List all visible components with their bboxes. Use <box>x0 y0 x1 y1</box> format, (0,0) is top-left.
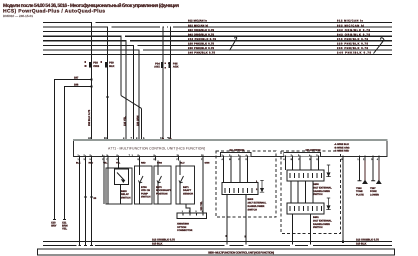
svg-text:A771 - MULTIFUNCTION CONTROL: A771 - MULTIFUNCTION CONTROL UNIT [HCS F… <box>108 146 205 150</box>
wire drop x141.5 to unit <box>141 108 143 140</box>
svg-text:942 ORG/BLK 0.75: 942 ORG/BLK 0.75 <box>337 33 371 36</box>
wire continuation slash left <box>230 37 237 51</box>
bus line 6 <box>43 44 392 46</box>
hd connector strip <box>284 152 321 156</box>
svg-text:DN5910 — 240-15-01: DN5910 — 240-15-01 <box>3 14 33 18</box>
wire label cluster right <box>337 20 372 55</box>
connector wedge P29 <box>105 62 107 68</box>
svg-text:298: 298 <box>74 84 79 87</box>
svg-text:SWITCH: SWITCH <box>313 193 323 196</box>
svg-text:230 PNK/BLK 0.75: 230 PNK/BLK 0.75 <box>337 47 369 50</box>
A771 multifunction control unit box <box>74 140 388 157</box>
end tick X10 <box>53 219 56 221</box>
svg-text:BLU: BLU <box>180 161 185 164</box>
relay enclosure B820 <box>106 168 132 204</box>
end tick X11 <box>63 219 66 221</box>
svg-text:SENSOR: SENSOR <box>183 192 193 195</box>
pin dot v8 <box>170 138 172 140</box>
switch blade B700 <box>139 176 144 183</box>
svg-text:PLATE: PLATE <box>356 193 364 196</box>
inner wires b800h to b801 <box>291 181 313 203</box>
pin labels above unit top <box>88 137 171 140</box>
svg-text:POSITION: POSITION <box>156 192 168 195</box>
pin number row inside unit <box>78 154 205 157</box>
junction dot trio 2 <box>84 196 86 198</box>
wire drop x107.4 from line2 to unit <box>106 27 108 140</box>
bus line 1 <box>43 22 392 24</box>
B800 down wires <box>226 195 228 246</box>
diagonal jog wire <box>121 96 142 109</box>
svg-text:LOWER: LOWER <box>370 193 379 196</box>
svg-text:220 PNK/BLK 0.75: 220 PNK/BLK 0.75 <box>188 43 215 46</box>
X868 option connector <box>177 213 207 219</box>
wire drop x139 from line7 to unit <box>138 49 140 140</box>
svg-text:310 BLK: 310 BLK <box>356 243 367 246</box>
X868 pin digits <box>182 210 204 213</box>
right single wire <box>342 155 344 242</box>
left trio wire 2 <box>85 161 87 246</box>
svg-text:210 PNK/BLK 0.75: 210 PNK/BLK 0.75 <box>337 38 369 41</box>
svg-text:GRY: GRY <box>51 224 57 227</box>
svg-text:SWITCH: SWITCH <box>141 196 151 199</box>
svg-text:312 ORG/BLK 0.75: 312 ORG/BLK 0.75 <box>152 238 175 241</box>
enclosure feed wires <box>107 161 109 169</box>
branch wire to X11 <box>65 87 92 220</box>
HD OPTION dashed box <box>281 151 341 234</box>
junction dot trio 3 <box>90 196 92 198</box>
B801 connector box <box>287 203 324 214</box>
svg-text:ORG: ORG <box>93 65 99 68</box>
svg-text:220 GRN: 220 GRN <box>136 115 139 126</box>
pin number row below unit <box>78 158 205 161</box>
unit bottom pin ticks <box>80 155 204 160</box>
svg-text:230 PNK/BLK 0.75: 230 PNK/BLK 0.75 <box>188 47 215 50</box>
bus line 8 <box>43 53 392 55</box>
relay box <box>115 169 129 185</box>
wire continuation slash right <box>374 38 385 54</box>
svg-text:BLK: BLK <box>76 161 81 164</box>
wire drop x126 from line5 to unit <box>125 40 127 140</box>
svg-text:310 BLK: 310 BLK <box>152 243 163 246</box>
actuator arrow (no option) <box>260 181 264 193</box>
wire drop x133.5 from line6 to unit <box>133 45 135 140</box>
pin dash between v7 v8 <box>167 136 169 139</box>
bus line 5 <box>43 40 392 42</box>
bus line 3 <box>43 31 392 33</box>
switch enclosure B700 <box>135 166 153 204</box>
svg-text:YEL: YEL <box>62 228 67 231</box>
B800 connector box (no option) <box>222 183 258 195</box>
svg-text:912 MIC/AN lo: 912 MIC/AN lo <box>188 20 207 23</box>
No OPTION pin ticks <box>224 155 248 160</box>
wire drop x170.5 from line2 to unit <box>170 27 172 140</box>
relay blade <box>117 173 125 183</box>
svg-text:SWITCH: SWITCH <box>248 208 258 211</box>
svg-text:X800 - MULTIFUNCTION CONTROL: X800 - MULTIFUNCTION CONTROL UNIT (HCS F… <box>208 251 274 255</box>
wire drop x121 from line4 <box>120 36 122 96</box>
fork component <box>372 161 374 181</box>
wire note block <box>334 143 350 152</box>
tap gaps in bus lines <box>92 23 173 50</box>
svg-text:942 ORG/BLK 0.75: 942 ORG/BLK 0.75 <box>188 33 215 36</box>
svg-text:922 MIC/AN hi: 922 MIC/AN hi <box>188 24 208 27</box>
HD OPTION pin ticks <box>285 155 318 160</box>
pin dot v7 <box>162 138 164 140</box>
tone component <box>358 161 360 181</box>
junction v2 dot <box>106 96 108 98</box>
svg-text:932 ORG/BLK 0.75: 932 ORG/BLK 0.75 <box>337 29 371 32</box>
svg-text:220 PNK/BLK 0.75: 220 PNK/BLK 0.75 <box>337 43 369 46</box>
svg-text:SWITCH: SWITCH <box>313 226 323 229</box>
No OPTION wires to B800 <box>224 161 248 183</box>
wire drop x91.5 from line1 to unit <box>91 22 93 140</box>
branch wire to X10 <box>55 80 92 220</box>
svg-text:RED: RED <box>141 161 146 164</box>
svg-text:-C WIRE RED: -C WIRE RED <box>334 149 349 152</box>
svg-text:No OPTION: No OPTION <box>230 149 245 152</box>
svg-text:210 PNK/BLK 0.75: 210 PNK/BLK 0.75 <box>188 38 217 41</box>
fork component pins <box>373 155 379 160</box>
connector wedge P28 <box>89 62 91 68</box>
switch enclosure B870 <box>154 166 171 204</box>
B801 down wires <box>292 214 294 245</box>
svg-text:SWITCH: SWITCH <box>121 196 131 199</box>
svg-text:932 ORG/BLK 0.75: 932 ORG/BLK 0.75 <box>188 29 215 32</box>
svg-text:310 YEL: 310 YEL <box>200 201 203 211</box>
svg-text:GRN: GRN <box>205 161 210 164</box>
No OPTION dashed box <box>216 151 276 217</box>
junction branch 2 <box>90 85 92 87</box>
svg-text:AGX: AGX <box>154 66 160 69</box>
bus line 4 <box>43 35 392 37</box>
HD wires to B800h <box>285 161 318 171</box>
junction dot right wire <box>342 241 344 243</box>
svg-text:G: G <box>341 158 343 161</box>
junction branch 1 <box>90 78 92 80</box>
connector wedge P34 <box>161 62 163 68</box>
svg-text:HD OPTION: HD OPTION <box>306 149 321 152</box>
actuator arrow (hd 1) <box>326 165 330 177</box>
bottom bus line 2 <box>43 245 392 247</box>
svg-text:297: 297 <box>74 77 79 80</box>
bus line 7 <box>43 49 392 51</box>
wire dot <box>225 235 227 237</box>
actuator arrow (hd 2) <box>326 198 330 210</box>
bus line 2 <box>43 26 392 28</box>
left trio wire 1 <box>79 161 81 246</box>
svg-text:AGX: AGX <box>173 66 179 69</box>
no-option connector strip <box>221 152 252 156</box>
left trio wire 3 <box>91 161 93 246</box>
switch enclosure B871 <box>176 166 195 204</box>
line 2 gaps <box>77 244 314 246</box>
svg-text:912 MIC/CAN lo: 912 MIC/CAN lo <box>337 20 363 23</box>
connector wedge P35 <box>168 62 170 68</box>
svg-text:922 MIC/CAN hi: 922 MIC/CAN hi <box>337 24 364 27</box>
wire to option connector <box>186 204 190 213</box>
svg-text:292 BLK 0.75: 292 BLK 0.75 <box>88 109 91 126</box>
tone component pins <box>359 155 365 160</box>
svg-text:240 PNK/BLK 0.75: 240 PNK/BLK 0.75 <box>337 52 372 55</box>
wire colour codes below unit <box>76 161 210 164</box>
unit top gray edge <box>73 139 388 141</box>
svg-text:BLK: BLK <box>109 65 114 68</box>
svg-text:240 PNK/BLK 0.75: 240 PNK/BLK 0.75 <box>188 52 216 55</box>
wire label cluster left <box>188 20 217 55</box>
bottom bus line 1 <box>43 241 392 243</box>
ground bus box X800 <box>38 249 395 255</box>
B800 connector box (hd) <box>287 170 324 181</box>
svg-text:CONNECTOR: CONNECTOR <box>177 229 193 232</box>
wire drop x163.2 from line2 to unit <box>162 27 164 140</box>
svg-text:210 YEL: 210 YEL <box>123 116 126 126</box>
svg-text:312 ORG/BLK 0.75: 312 ORG/BLK 0.75 <box>356 238 379 241</box>
